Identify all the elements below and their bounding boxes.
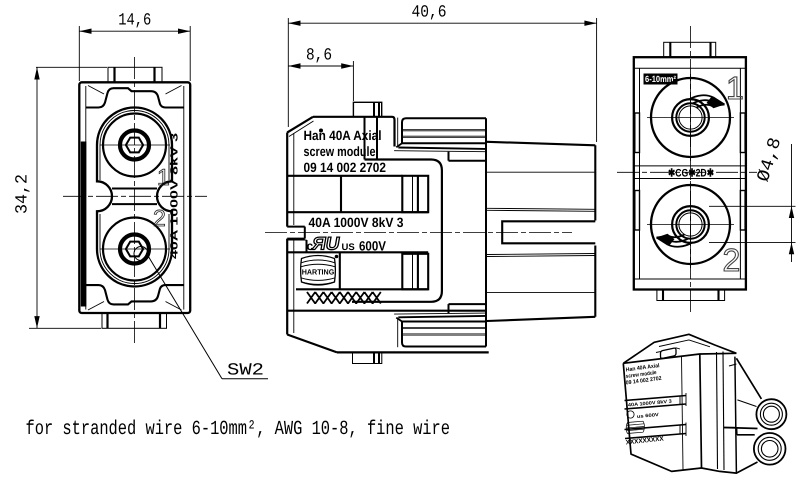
svg-text:US: US <box>342 242 355 253</box>
bottom hat profile <box>86 285 184 304</box>
contact 2 <box>100 218 170 281</box>
top tab <box>108 67 162 82</box>
notch left <box>287 227 306 253</box>
SW2 leader <box>134 247 268 379</box>
svg-text:600V: 600V <box>359 239 386 254</box>
svg-text:40,6: 40,6 <box>412 4 447 23</box>
svg-text:ЯU: ЯU <box>311 234 342 254</box>
dimension 14,6 <box>79 12 190 82</box>
text block <box>304 128 404 254</box>
contact 1 <box>100 114 170 177</box>
face vertical detail <box>682 356 684 469</box>
front-right face <box>717 352 737 474</box>
top tab <box>664 42 716 57</box>
inner wall line <box>293 133 295 225</box>
wedge 2 <box>657 234 693 247</box>
svg-text:09 14 002 2702: 09 14 002 2702 <box>304 160 387 175</box>
svg-text:34,2: 34,2 <box>14 174 33 214</box>
XXXX row <box>307 292 381 304</box>
svg-text:14,6: 14,6 <box>118 12 151 31</box>
svg-text:2: 2 <box>723 242 741 278</box>
label 6-10mm2 <box>644 74 678 85</box>
upper contact box <box>287 176 428 212</box>
tiny texts <box>625 362 672 446</box>
svg-text:✱CG✱2D✱: ✱CG✱2D✱ <box>668 168 714 180</box>
contact 1 <box>647 74 734 161</box>
outer step right of frame <box>449 152 487 313</box>
dimension 34,2 <box>14 67 108 328</box>
bottom tab <box>102 313 167 328</box>
frame <box>352 160 442 302</box>
vertical centerline <box>690 26 692 312</box>
top hat profile <box>86 88 184 107</box>
bottom tab <box>353 352 382 363</box>
svg-text:1: 1 <box>157 164 170 190</box>
inner wall lines <box>86 86 184 311</box>
dimension 40,6 <box>288 4 596 143</box>
collar right edge <box>485 118 487 346</box>
left slot bar <box>81 142 87 307</box>
contact 2 <box>647 181 734 268</box>
svg-text:HARTING: HARTING <box>302 268 335 277</box>
svg-text:1: 1 <box>726 70 744 106</box>
upper cylinder <box>724 358 786 429</box>
HARTING badge <box>301 255 339 285</box>
svg-text:8,6: 8,6 <box>306 47 332 66</box>
printed face label rails <box>625 393 687 439</box>
horizontal centerline <box>617 171 757 173</box>
collar block bottom <box>394 313 486 347</box>
wall notches <box>635 113 745 230</box>
top tab <box>661 348 677 358</box>
body <box>634 57 746 289</box>
svg-text:40A 1000V 8kV 3: 40A 1000V 8kV 3 <box>309 215 404 230</box>
tiny harting badge <box>626 421 644 433</box>
top tab <box>353 102 381 117</box>
dimension 8,6 <box>288 47 353 102</box>
svg-text:screw module: screw module <box>304 144 376 159</box>
svg-text:40A 1000V 8kV 3: 40A 1000V 8kV 3 <box>169 133 181 259</box>
tab slot verticals <box>364 117 366 160</box>
vertical centerline <box>134 57 136 345</box>
horizontal centerline <box>63 195 207 197</box>
lower band <box>287 252 428 289</box>
svg-text:2: 2 <box>153 205 166 231</box>
centerline <box>265 231 572 233</box>
middle band <box>634 166 746 180</box>
right block <box>487 142 595 321</box>
top face inner rim <box>659 340 710 347</box>
line under x row <box>288 310 486 312</box>
wedge 1 <box>689 95 725 108</box>
capsule <box>97 108 172 287</box>
top face outline <box>623 334 736 363</box>
svg-text:for stranded wire 6-10mm², AWG: for stranded wire 6-10mm², AWG 10-8, fin… <box>26 418 451 441</box>
body outline left <box>287 117 489 353</box>
lower cylinder <box>702 433 786 473</box>
waist bars <box>112 188 157 190</box>
svg-text:Han 40A Axial: Han 40A Axial <box>304 128 382 143</box>
bottom tab <box>657 290 725 301</box>
tiny UL circle <box>627 411 634 418</box>
dimension diameter 4,8 <box>709 135 796 262</box>
printed face edges <box>623 354 701 471</box>
svg-text:SW2: SW2 <box>227 362 264 381</box>
collar block top <box>394 118 486 152</box>
body outline <box>79 82 190 313</box>
UL mark <box>311 234 342 254</box>
